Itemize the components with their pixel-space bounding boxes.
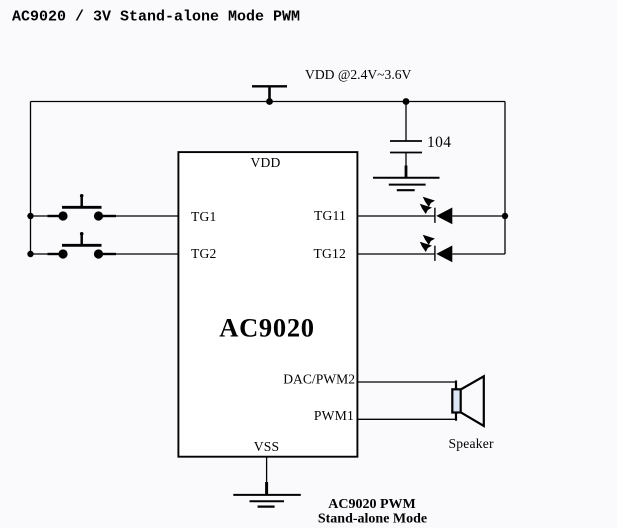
- node: capacitor tap junction: [403, 98, 410, 105]
- svg-text:PWM1: PWM1: [314, 408, 354, 423]
- ground (VSS): [233, 482, 300, 507]
- wire capacitor to ground: [405, 153, 407, 168]
- LED D2: [420, 235, 453, 262]
- wire TG12 to LED D2: [357, 253, 434, 255]
- push button S2: [48, 232, 117, 259]
- svg-text:AC9020 / 3V Stand-alone Mode P: AC9020 / 3V Stand-alone Mode PWM: [12, 9, 300, 26]
- wire LED D2 to right bus corner: [452, 253, 505, 255]
- wire LED D1 to right bus: [452, 215, 505, 217]
- wire: right vertical bus: [504, 102, 506, 255]
- ground (capacitor): [373, 166, 440, 191]
- wire: left vertical bus: [30, 102, 32, 255]
- svg-text:TG1: TG1: [191, 209, 217, 224]
- push button S1: [48, 194, 117, 221]
- wire: VDD top rail: [31, 101, 506, 103]
- node: TG2 bus corner: [27, 251, 33, 257]
- svg-text:TG11: TG11: [314, 208, 346, 223]
- node: TG1 bus junction: [27, 213, 33, 219]
- svg-text:VSS: VSS: [254, 439, 280, 454]
- wire switch S1 to TG1: [116, 215, 178, 217]
- svg-text:DAC/PWM2: DAC/PWM2: [283, 371, 355, 386]
- svg-text:VDD: VDD: [250, 155, 280, 170]
- wire PWM1 to speaker: [357, 418, 456, 420]
- power symbol VDD: [252, 86, 287, 101]
- wire bus to switch S2: [31, 253, 51, 255]
- wire switch S2 to TG2: [116, 253, 178, 255]
- wire to capacitor: [405, 102, 407, 142]
- wire TG11 to LED D1: [357, 215, 434, 217]
- op-amp box: IC U1 AC9020: [178, 152, 357, 457]
- LED D1: [420, 197, 453, 225]
- svg-text:TG12: TG12: [313, 246, 346, 261]
- node: right bus junction: [502, 213, 508, 219]
- speaker LS1: [452, 376, 484, 426]
- svg-text:104: 104: [427, 134, 451, 151]
- svg-text:TG2: TG2: [191, 246, 217, 261]
- svg-text:AC9020 PWM: AC9020 PWM: [328, 497, 416, 512]
- svg-text:Stand-alone Mode: Stand-alone Mode: [318, 512, 427, 527]
- capacitor C1: [390, 141, 422, 153]
- svg-text:AC9020: AC9020: [219, 313, 314, 343]
- wire DAC/PWM2 to speaker: [357, 381, 456, 383]
- junction on VDD rail: [266, 98, 273, 105]
- wire bus to switch S1: [31, 215, 51, 217]
- svg-text:VDD @2.4V~3.6V: VDD @2.4V~3.6V: [305, 67, 412, 82]
- wire VSS to ground: [266, 457, 268, 483]
- svg-text:Speaker: Speaker: [449, 436, 494, 451]
